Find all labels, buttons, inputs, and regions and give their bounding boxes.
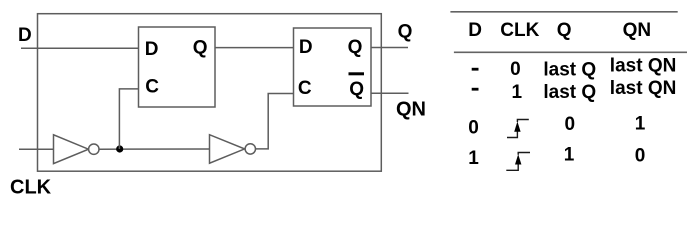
- inverter U3 triangle: [54, 135, 89, 164]
- svg-text:D: D: [299, 37, 313, 58]
- latch U2 (slave) box: [294, 28, 372, 106]
- svg-text:D: D: [468, 20, 482, 41]
- svg-text:last Q: last Q: [543, 82, 596, 103]
- svg-text:1: 1: [512, 82, 523, 103]
- svg-text:last QN: last QN: [610, 78, 677, 99]
- row4 CLK rising edge symbol: [506, 153, 530, 171]
- wire: latch1 Q to latch2 D: [215, 47, 294, 49]
- wire: inverter U4 output to latch2 C: [256, 94, 295, 149]
- wire: junction up to latch1 C: [119, 89, 139, 149]
- wire: inverter U3 output to inverter U4 input: [99, 148, 210, 150]
- svg-text:CLK: CLK: [10, 176, 52, 198]
- svg-text:1: 1: [468, 148, 479, 169]
- truth table header rule: [454, 51, 687, 53]
- svg-text:0: 0: [468, 117, 479, 138]
- svg-text:1: 1: [564, 145, 575, 166]
- truth table top rule: [450, 11, 677, 13]
- svg-text:C: C: [145, 77, 159, 98]
- wire: CLK input: [19, 148, 54, 150]
- svg-text:0: 0: [635, 145, 646, 166]
- svg-text:D: D: [18, 25, 32, 46]
- svg-text:QN: QN: [623, 20, 652, 41]
- svg-text:0: 0: [565, 114, 576, 135]
- svg-text:1: 1: [635, 114, 646, 135]
- inverter U4 bubble: [245, 144, 255, 154]
- svg-text:CLK: CLK: [500, 20, 539, 41]
- svg-text:0: 0: [510, 59, 521, 80]
- svg-text:Q: Q: [349, 79, 364, 100]
- svg-text:Q: Q: [557, 20, 572, 41]
- outer enclosure box: [38, 14, 382, 172]
- svg-text:last Q: last Q: [543, 59, 596, 80]
- svg-text:Q: Q: [193, 38, 208, 59]
- svg-text:C: C: [298, 78, 312, 99]
- svg-text:QN: QN: [396, 98, 426, 120]
- svg-text:Q: Q: [398, 21, 413, 42]
- row2 D value dash: [472, 88, 479, 91]
- wire: Q output: [371, 47, 408, 49]
- svg-text:D: D: [145, 39, 159, 60]
- svg-text:last QN: last QN: [610, 56, 677, 77]
- inverter U4 triangle: [210, 135, 245, 164]
- latch U1 (master) box: [139, 27, 216, 107]
- wire: D input to latch1 D: [21, 47, 139, 49]
- row3 CLK rising edge symbol: [507, 120, 529, 138]
- row1 D value dash: [472, 68, 479, 71]
- latch U2 pin QN overbar: [349, 72, 365, 75]
- junction node on CLK line: [116, 145, 123, 152]
- inverter U3 bubble: [89, 144, 99, 154]
- wire: QN output: [371, 92, 409, 94]
- svg-text:Q: Q: [348, 37, 363, 58]
